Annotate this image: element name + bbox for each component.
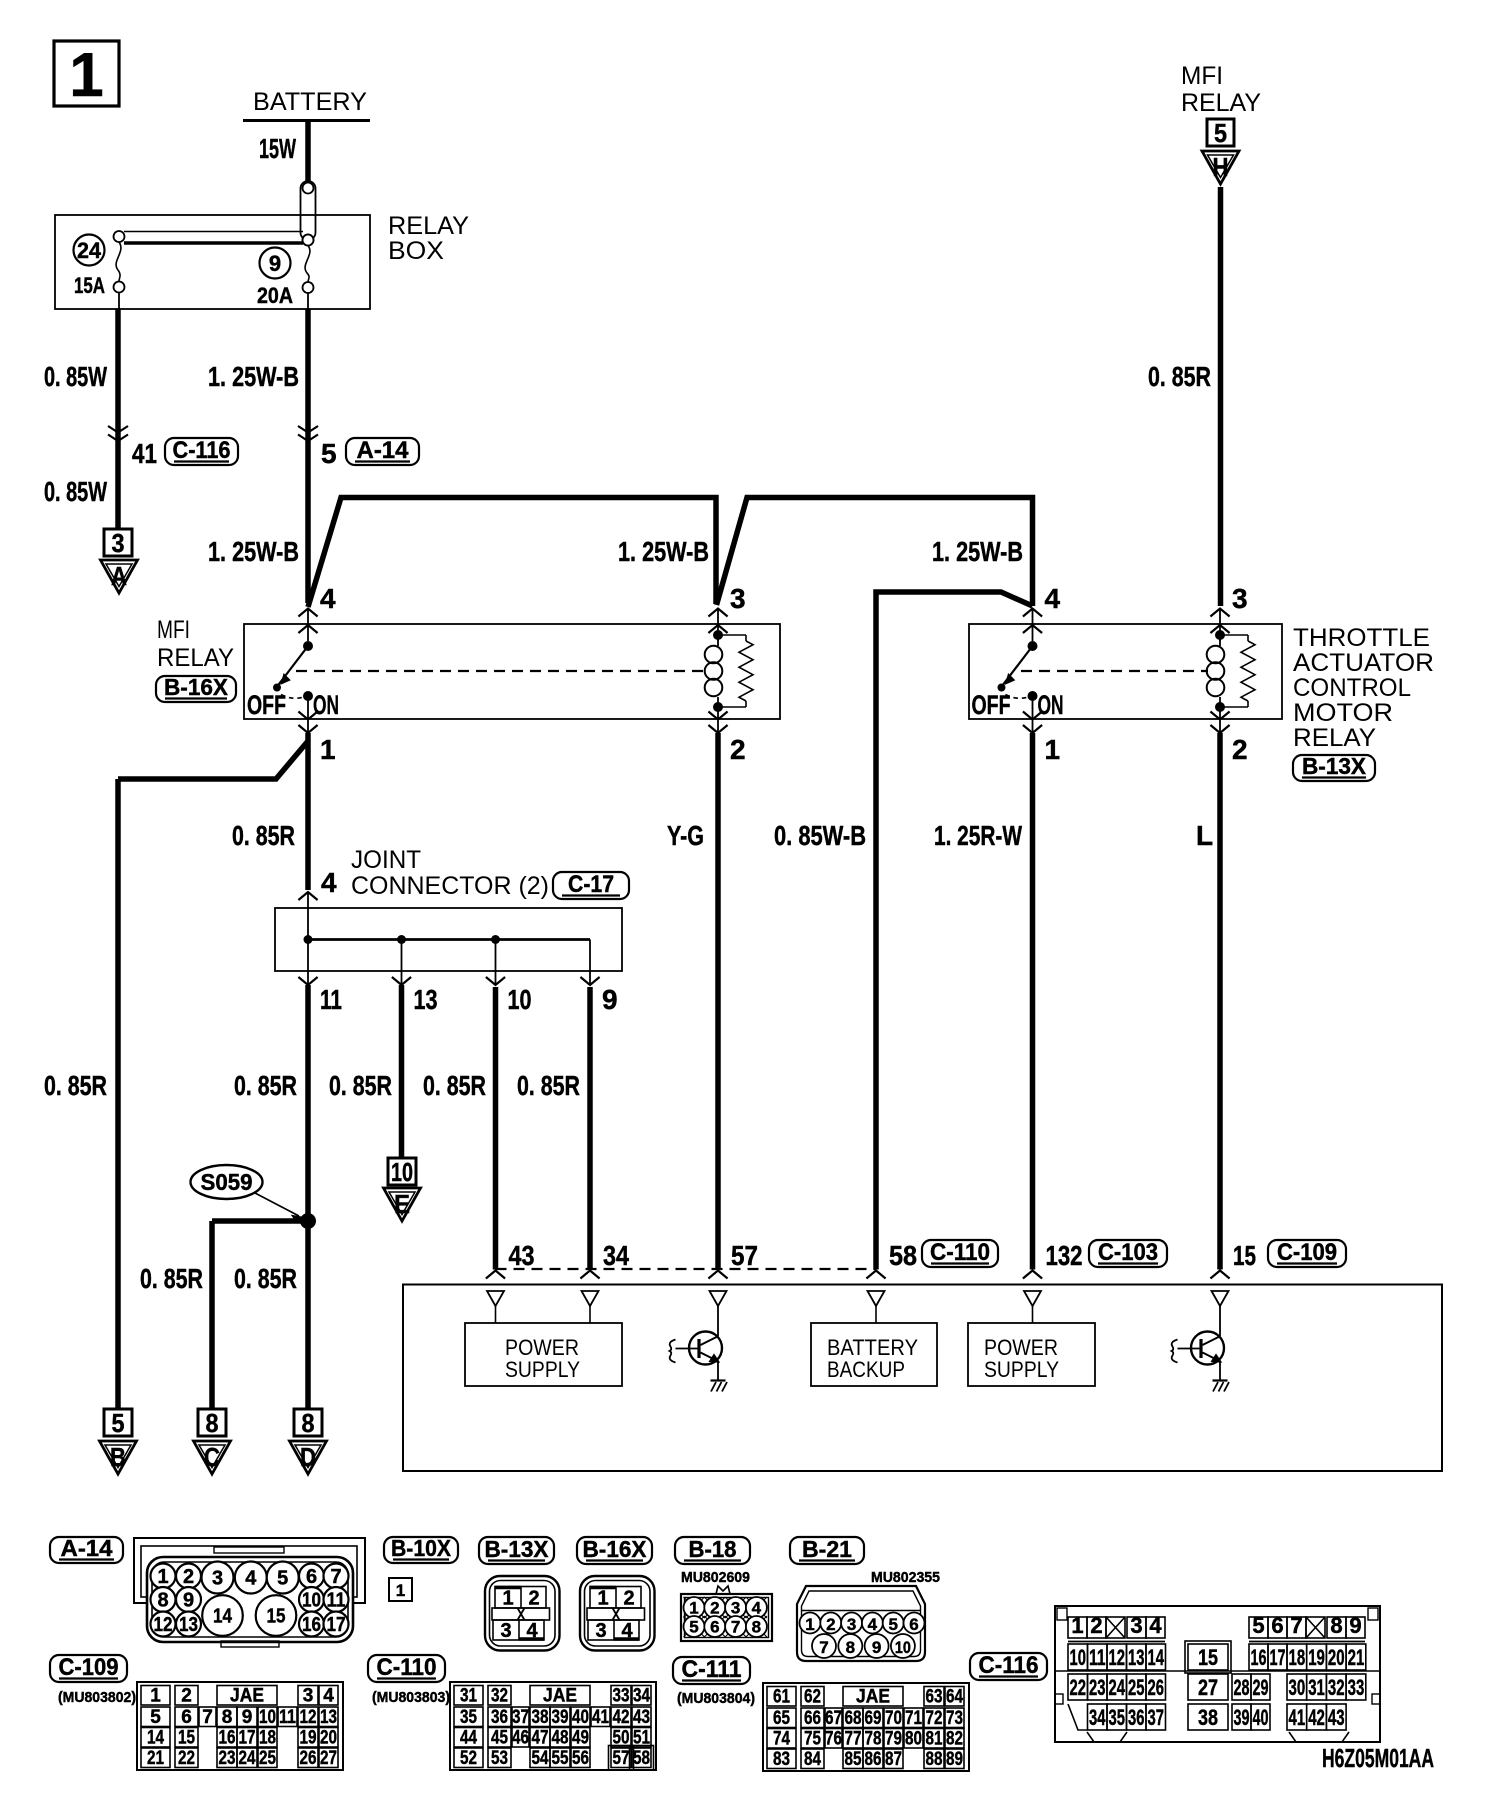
- svg-text:18: 18: [1289, 1645, 1306, 1670]
- svg-text:46: 46: [512, 1728, 529, 1749]
- svg-text:BOX: BOX: [388, 237, 444, 265]
- svg-text:66: 66: [804, 1708, 821, 1729]
- svg-text:1: 1: [69, 41, 103, 110]
- svg-text:(MU803804): (MU803804): [677, 1690, 755, 1707]
- svg-text:40: 40: [572, 1707, 589, 1728]
- svg-text:20: 20: [1328, 1645, 1345, 1670]
- svg-text:85: 85: [845, 1749, 862, 1770]
- svg-text:A-14: A-14: [357, 437, 410, 464]
- svg-text:B-13X: B-13X: [1302, 753, 1367, 779]
- svg-text:15: 15: [1198, 1645, 1218, 1670]
- svg-text:41: 41: [592, 1707, 609, 1728]
- svg-text:34: 34: [1089, 1705, 1106, 1730]
- svg-text:6: 6: [1271, 1613, 1283, 1638]
- svg-text:49: 49: [572, 1728, 589, 1749]
- svg-text:35: 35: [460, 1707, 477, 1728]
- svg-text:S059: S059: [201, 1169, 253, 1195]
- svg-text:2: 2: [181, 1686, 192, 1707]
- svg-text:4: 4: [321, 867, 337, 898]
- svg-text:E: E: [394, 1189, 410, 1219]
- svg-text:57: 57: [613, 1748, 630, 1769]
- svg-text:6: 6: [710, 1618, 719, 1637]
- svg-text:26: 26: [300, 1748, 317, 1769]
- svg-text:OFF: OFF: [247, 690, 286, 720]
- svg-text:2: 2: [623, 1588, 634, 1610]
- svg-text:11: 11: [327, 1590, 346, 1612]
- svg-text:B-13X: B-13X: [485, 1536, 550, 1562]
- svg-text:70: 70: [885, 1708, 902, 1729]
- svg-text:45: 45: [491, 1728, 508, 1749]
- svg-text:10: 10: [391, 1157, 413, 1187]
- svg-text:4: 4: [323, 1686, 334, 1707]
- svg-text:3: 3: [730, 583, 746, 614]
- svg-text:THROTTLE: THROTTLE: [1293, 624, 1430, 652]
- svg-text:C-109: C-109: [1277, 1239, 1337, 1266]
- svg-text:0. 85R: 0. 85R: [517, 1070, 580, 1101]
- svg-text:11: 11: [279, 1707, 296, 1728]
- svg-text:C-111: C-111: [682, 1656, 742, 1683]
- svg-text:64: 64: [946, 1687, 963, 1708]
- svg-text:1: 1: [320, 734, 336, 765]
- svg-text:1: 1: [597, 1588, 608, 1610]
- svg-text:43: 43: [633, 1707, 650, 1728]
- svg-text:C-17: C-17: [568, 871, 614, 898]
- svg-text:3: 3: [731, 1599, 740, 1618]
- svg-text:5: 5: [321, 438, 337, 469]
- svg-text:2: 2: [528, 1588, 539, 1610]
- svg-text:RELAY: RELAY: [157, 644, 234, 672]
- svg-text:7: 7: [1290, 1613, 1302, 1638]
- svg-text:5: 5: [277, 1568, 288, 1590]
- svg-text:3: 3: [595, 1620, 606, 1642]
- svg-text:84: 84: [804, 1749, 821, 1770]
- svg-text:63: 63: [926, 1687, 943, 1708]
- svg-text:0. 85R: 0. 85R: [44, 1070, 107, 1101]
- svg-text:MFI: MFI: [157, 616, 190, 644]
- svg-text:9: 9: [183, 1590, 194, 1612]
- svg-text:42: 42: [1308, 1705, 1325, 1730]
- svg-text:ON: ON: [1038, 690, 1064, 720]
- svg-text:A: A: [111, 561, 127, 591]
- svg-text:42: 42: [613, 1707, 630, 1728]
- svg-text:55: 55: [552, 1748, 569, 1769]
- svg-text:44: 44: [460, 1728, 477, 1749]
- svg-text:65: 65: [773, 1708, 790, 1729]
- svg-text:16: 16: [302, 1614, 321, 1636]
- svg-text:34: 34: [633, 1686, 650, 1707]
- svg-text:41: 41: [1289, 1705, 1306, 1730]
- svg-text:L: L: [1196, 820, 1213, 851]
- svg-text:30: 30: [1289, 1675, 1306, 1700]
- svg-text:2: 2: [1090, 1613, 1102, 1638]
- svg-text:B: B: [110, 1442, 126, 1472]
- svg-text:3: 3: [112, 528, 125, 558]
- svg-text:38: 38: [532, 1707, 549, 1728]
- svg-text:3: 3: [847, 1615, 856, 1634]
- svg-text:74: 74: [773, 1729, 790, 1750]
- svg-text:1: 1: [396, 1581, 405, 1600]
- svg-text:43: 43: [1328, 1705, 1345, 1730]
- svg-text:13: 13: [1128, 1645, 1145, 1670]
- svg-text:2: 2: [730, 734, 746, 765]
- svg-text:15A: 15A: [74, 273, 105, 298]
- svg-text:19: 19: [300, 1728, 317, 1749]
- svg-text:ACTUATOR: ACTUATOR: [1293, 649, 1434, 677]
- svg-text:77: 77: [845, 1729, 862, 1750]
- svg-text:JAE: JAE: [543, 1686, 577, 1707]
- svg-text:4: 4: [752, 1599, 762, 1618]
- svg-text:RELAY: RELAY: [388, 212, 469, 240]
- svg-text:132: 132: [1046, 1240, 1083, 1271]
- svg-text:7: 7: [731, 1618, 740, 1637]
- svg-text:1: 1: [150, 1686, 161, 1707]
- svg-text:RELAY: RELAY: [1293, 724, 1376, 752]
- svg-text:0. 85W-B: 0. 85W-B: [774, 820, 866, 851]
- svg-text:23: 23: [1089, 1675, 1106, 1700]
- svg-text:10: 10: [508, 984, 532, 1015]
- svg-text:12: 12: [154, 1614, 173, 1636]
- svg-text:2: 2: [826, 1615, 835, 1634]
- svg-text:B-21: B-21: [802, 1536, 852, 1562]
- svg-text:13: 13: [179, 1614, 198, 1636]
- svg-text:5: 5: [112, 1408, 125, 1438]
- svg-text:B-16X: B-16X: [583, 1536, 648, 1562]
- svg-text:20A: 20A: [257, 283, 293, 308]
- svg-text:9: 9: [269, 251, 281, 276]
- svg-text:5: 5: [1252, 1613, 1264, 1638]
- svg-text:82: 82: [946, 1729, 963, 1750]
- svg-text:15: 15: [178, 1728, 195, 1749]
- svg-text:B-16X: B-16X: [164, 674, 229, 700]
- svg-text:11: 11: [320, 984, 342, 1015]
- svg-text:0. 85R: 0. 85R: [423, 1070, 486, 1101]
- svg-text:7: 7: [330, 1566, 341, 1588]
- svg-text:2: 2: [710, 1599, 719, 1618]
- svg-text:3: 3: [303, 1686, 314, 1707]
- svg-text:12: 12: [300, 1707, 317, 1728]
- svg-text:31: 31: [1308, 1675, 1325, 1700]
- svg-text:4: 4: [1045, 583, 1061, 614]
- svg-text:73: 73: [946, 1708, 963, 1729]
- svg-text:41: 41: [132, 438, 157, 469]
- svg-text:B-10X: B-10X: [391, 1535, 452, 1561]
- svg-text:C: C: [204, 1442, 220, 1472]
- svg-text:25: 25: [259, 1748, 276, 1769]
- svg-text:8: 8: [302, 1408, 315, 1438]
- svg-text:56: 56: [572, 1748, 589, 1769]
- svg-text:1: 1: [1071, 1613, 1083, 1638]
- svg-text:69: 69: [865, 1708, 882, 1729]
- svg-text:8: 8: [157, 1590, 168, 1612]
- svg-text:CONNECTOR (2): CONNECTOR (2): [351, 872, 549, 900]
- svg-text:20: 20: [320, 1728, 337, 1749]
- svg-text:47: 47: [532, 1728, 549, 1749]
- svg-text:RELAY: RELAY: [1181, 89, 1261, 117]
- svg-text:61: 61: [773, 1687, 790, 1708]
- svg-text:58: 58: [633, 1748, 650, 1769]
- svg-text:1. 25W-B: 1. 25W-B: [932, 536, 1023, 567]
- svg-text:SUPPLY: SUPPLY: [505, 1357, 580, 1382]
- svg-text:43: 43: [509, 1240, 535, 1271]
- svg-text:16: 16: [219, 1728, 236, 1749]
- svg-text:1: 1: [689, 1599, 698, 1618]
- svg-text:MU802609: MU802609: [681, 1569, 750, 1586]
- svg-text:3: 3: [212, 1568, 223, 1590]
- svg-text:9: 9: [242, 1707, 253, 1728]
- svg-text:8: 8: [206, 1408, 219, 1438]
- svg-text:75: 75: [804, 1729, 821, 1750]
- svg-text:4: 4: [320, 583, 336, 614]
- svg-text:21: 21: [1348, 1645, 1365, 1670]
- svg-text:89: 89: [946, 1749, 963, 1770]
- svg-text:C-103: C-103: [1098, 1239, 1158, 1266]
- svg-text:40: 40: [1253, 1705, 1269, 1730]
- svg-text:68: 68: [845, 1708, 862, 1729]
- svg-text:26: 26: [1148, 1675, 1165, 1700]
- svg-text:22: 22: [178, 1748, 195, 1769]
- svg-text:35: 35: [1109, 1705, 1126, 1730]
- svg-text:9: 9: [602, 984, 618, 1015]
- svg-text:1: 1: [502, 1588, 513, 1610]
- svg-text:CONTROL: CONTROL: [1293, 674, 1411, 702]
- svg-text:0. 85R: 0. 85R: [234, 1070, 297, 1101]
- svg-text:88: 88: [926, 1749, 943, 1770]
- svg-text:6: 6: [181, 1707, 192, 1728]
- svg-text:13: 13: [320, 1707, 337, 1728]
- svg-text:C-110: C-110: [930, 1239, 990, 1266]
- svg-text:9: 9: [872, 1638, 881, 1657]
- svg-text:14: 14: [147, 1728, 164, 1749]
- svg-text:62: 62: [804, 1687, 821, 1708]
- svg-text:ON: ON: [313, 690, 339, 720]
- svg-text:57: 57: [731, 1240, 758, 1271]
- svg-text:0. 85R: 0. 85R: [140, 1263, 203, 1294]
- svg-text:17: 17: [327, 1614, 346, 1636]
- svg-text:0. 85R: 0. 85R: [1148, 361, 1211, 392]
- svg-text:28: 28: [1234, 1675, 1250, 1700]
- svg-text:4: 4: [1149, 1613, 1162, 1638]
- svg-text:7: 7: [819, 1638, 828, 1657]
- svg-text:15: 15: [1233, 1240, 1256, 1271]
- svg-text:29: 29: [1253, 1675, 1269, 1700]
- svg-text:2: 2: [183, 1566, 194, 1588]
- svg-text:(MU803802): (MU803802): [58, 1689, 136, 1706]
- svg-text:6: 6: [306, 1566, 317, 1588]
- svg-text:34: 34: [603, 1240, 629, 1271]
- svg-text:48: 48: [552, 1728, 569, 1749]
- svg-text:2: 2: [1232, 734, 1248, 765]
- svg-text:5: 5: [1214, 118, 1227, 148]
- svg-text:86: 86: [865, 1749, 882, 1770]
- svg-text:11: 11: [1089, 1645, 1106, 1670]
- svg-text:C-109: C-109: [59, 1654, 119, 1681]
- svg-text:OFF: OFF: [972, 690, 1011, 720]
- svg-text:MU802355: MU802355: [871, 1569, 940, 1586]
- svg-text:10: 10: [302, 1590, 321, 1612]
- svg-text:24: 24: [1109, 1675, 1126, 1700]
- svg-text:1: 1: [1045, 734, 1061, 765]
- svg-text:4: 4: [245, 1568, 257, 1590]
- svg-text:Y-G: Y-G: [667, 820, 704, 851]
- svg-text:32: 32: [1328, 1675, 1345, 1700]
- svg-text:17: 17: [1270, 1645, 1286, 1670]
- svg-text:(MU803803): (MU803803): [372, 1689, 450, 1706]
- svg-text:79: 79: [885, 1729, 902, 1750]
- svg-text:10: 10: [1070, 1645, 1087, 1670]
- svg-text:14: 14: [1148, 1645, 1165, 1670]
- svg-text:8: 8: [846, 1638, 855, 1657]
- svg-text:1. 25W-B: 1. 25W-B: [208, 361, 299, 392]
- svg-text:3: 3: [1130, 1613, 1142, 1638]
- svg-text:21: 21: [147, 1748, 164, 1769]
- svg-text:37: 37: [1148, 1705, 1165, 1730]
- svg-text:39: 39: [1234, 1705, 1250, 1730]
- svg-text:4: 4: [868, 1615, 878, 1634]
- svg-text:5: 5: [689, 1618, 698, 1637]
- svg-text:1. 25W-B: 1. 25W-B: [208, 536, 299, 567]
- svg-text:83: 83: [773, 1749, 790, 1770]
- svg-text:78: 78: [865, 1729, 882, 1750]
- svg-text:MFI: MFI: [1181, 62, 1223, 90]
- svg-text:53: 53: [491, 1748, 508, 1769]
- svg-text:0. 85R: 0. 85R: [234, 1263, 297, 1294]
- svg-text:14: 14: [213, 1606, 233, 1628]
- svg-text:MOTOR: MOTOR: [1293, 699, 1393, 727]
- svg-text:0. 85W: 0. 85W: [44, 361, 107, 392]
- svg-text:32: 32: [491, 1686, 508, 1707]
- svg-text:1. 25W-B: 1. 25W-B: [618, 536, 709, 567]
- svg-text:31: 31: [460, 1686, 477, 1707]
- svg-text:36: 36: [491, 1707, 508, 1728]
- svg-text:24: 24: [77, 238, 102, 263]
- svg-text:87: 87: [885, 1749, 902, 1770]
- svg-text:38: 38: [1198, 1705, 1218, 1730]
- svg-text:13: 13: [414, 984, 438, 1015]
- svg-text:1. 25R-W: 1. 25R-W: [934, 820, 1022, 851]
- svg-text:C-116: C-116: [173, 437, 231, 464]
- svg-text:3: 3: [1232, 583, 1248, 614]
- svg-text:BATTERY: BATTERY: [253, 88, 367, 116]
- svg-text:6: 6: [909, 1615, 918, 1634]
- svg-text:8: 8: [752, 1618, 761, 1637]
- svg-text:8: 8: [1330, 1613, 1342, 1638]
- svg-text:19: 19: [1308, 1645, 1325, 1670]
- svg-text:76: 76: [825, 1729, 842, 1750]
- svg-text:18: 18: [259, 1728, 276, 1749]
- svg-text:7: 7: [202, 1707, 213, 1728]
- svg-text:33: 33: [613, 1686, 630, 1707]
- svg-text:C-116: C-116: [979, 1652, 1039, 1679]
- svg-text:JOINT: JOINT: [351, 846, 421, 874]
- svg-text:23: 23: [219, 1748, 236, 1769]
- svg-text:8: 8: [222, 1707, 233, 1728]
- svg-text:52: 52: [460, 1748, 477, 1769]
- svg-text:33: 33: [1348, 1675, 1365, 1700]
- svg-text:27: 27: [1198, 1675, 1218, 1700]
- svg-text:0. 85R: 0. 85R: [232, 820, 295, 851]
- svg-text:D: D: [300, 1442, 316, 1472]
- svg-text:9: 9: [1349, 1613, 1361, 1638]
- svg-text:5: 5: [150, 1707, 161, 1728]
- svg-text:1: 1: [805, 1615, 814, 1634]
- svg-text:0. 85W: 0. 85W: [44, 476, 107, 507]
- svg-text:67: 67: [825, 1708, 842, 1729]
- svg-text:10: 10: [895, 1638, 911, 1657]
- svg-text:H: H: [1213, 152, 1229, 182]
- svg-text:A-14: A-14: [61, 1535, 113, 1561]
- svg-text:37: 37: [512, 1707, 529, 1728]
- svg-text:72: 72: [926, 1708, 943, 1729]
- svg-text:81: 81: [926, 1729, 943, 1750]
- svg-text:0. 85R: 0. 85R: [329, 1070, 392, 1101]
- svg-text:58: 58: [889, 1240, 917, 1271]
- svg-text:B-18: B-18: [689, 1536, 737, 1562]
- svg-text:71: 71: [905, 1708, 922, 1729]
- svg-text:15W: 15W: [259, 133, 296, 164]
- svg-text:JAE: JAE: [230, 1686, 264, 1707]
- svg-text:3: 3: [500, 1620, 511, 1642]
- svg-text:16: 16: [1251, 1645, 1267, 1670]
- svg-text:39: 39: [552, 1707, 569, 1728]
- svg-text:80: 80: [905, 1729, 922, 1750]
- svg-text:25: 25: [1128, 1675, 1145, 1700]
- svg-text:12: 12: [1109, 1645, 1126, 1670]
- svg-text:5: 5: [888, 1615, 897, 1634]
- svg-text:24: 24: [239, 1748, 256, 1769]
- svg-text:15: 15: [267, 1606, 286, 1628]
- svg-text:H6Z05M01AA: H6Z05M01AA: [1322, 1743, 1434, 1773]
- svg-text:17: 17: [239, 1728, 256, 1749]
- svg-text:36: 36: [1128, 1705, 1145, 1730]
- svg-text:BACKUP: BACKUP: [827, 1357, 905, 1382]
- svg-text:27: 27: [320, 1748, 337, 1769]
- svg-text:SUPPLY: SUPPLY: [984, 1357, 1059, 1382]
- svg-text:C-110: C-110: [377, 1654, 437, 1681]
- svg-text:1: 1: [157, 1566, 168, 1588]
- svg-text:54: 54: [532, 1748, 549, 1769]
- svg-text:10: 10: [259, 1707, 276, 1728]
- svg-text:22: 22: [1070, 1675, 1087, 1700]
- svg-text:JAE: JAE: [856, 1687, 890, 1708]
